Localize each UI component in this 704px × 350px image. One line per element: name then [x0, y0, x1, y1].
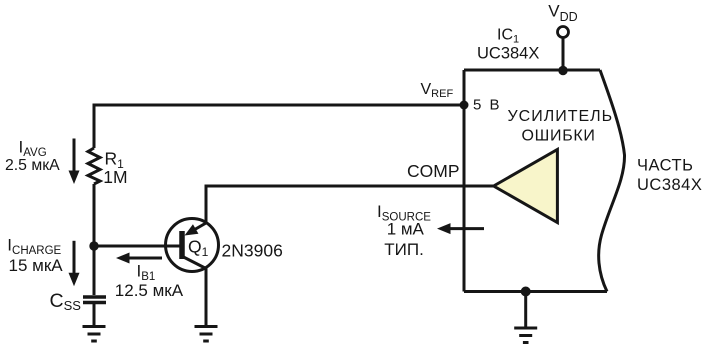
svg-text:Q1: Q1: [188, 237, 209, 260]
transistor Q1 emitter line: [189, 223, 206, 233]
IC box wavy right edge: [599, 70, 625, 292]
svg-text:UC384X: UC384X: [477, 45, 539, 63]
ground under CSS: [83, 327, 106, 342]
wire Q1 collector down to ground: [205, 269, 208, 327]
wire COMP from Q1 emitter up and right to error amp: [206, 186, 493, 223]
svg-text:15 мкА: 15 мкА: [9, 256, 64, 275]
capacitor CSS: [83, 297, 106, 303]
transistor Q1 base bar: [179, 231, 185, 259]
svg-text:2N3906: 2N3906: [222, 240, 283, 260]
svg-text:1 мА: 1 мА: [387, 220, 425, 239]
svg-text:1M: 1M: [103, 167, 127, 187]
svg-text:IC1: IC1: [497, 26, 519, 45]
IC box bottom edge: [464, 290, 607, 293]
transistor Q1 circle: [166, 219, 219, 272]
IC box top edge: [464, 69, 600, 72]
VDD terminal circle: [558, 27, 569, 38]
svg-text:CSS: CSS: [50, 290, 82, 313]
svg-text:ICHARGE: ICHARGE: [7, 236, 61, 258]
node VDD on box top: [558, 66, 567, 75]
ground under IC box: [514, 328, 537, 343]
svg-text:5 В: 5 В: [473, 97, 500, 114]
svg-text:ТИП.: ТИП.: [384, 240, 424, 259]
node junction R1/CSS/Q1 base: [89, 241, 98, 250]
wire R1 bottom to node junction and to capacitor: [93, 184, 96, 295]
svg-text:ОШИБКИ: ОШИБКИ: [522, 127, 596, 144]
svg-text:COMP: COMP: [407, 161, 460, 181]
node IC ground on box bottom: [521, 287, 531, 297]
arrow ISOURCE: [437, 223, 484, 234]
svg-text:UC384X: UC384X: [637, 176, 702, 194]
wire VDD terminal to box: [562, 38, 565, 71]
svg-text:УСИЛИТЕЛЬ: УСИЛИТЕЛЬ: [508, 108, 614, 125]
arrow IB1: [116, 253, 162, 264]
wire VREF horizontal from R1 top to IC box: [94, 105, 464, 148]
IC box left edge: [463, 70, 466, 292]
resistor R1: [88, 148, 100, 184]
arrow ICHARGE down: [69, 241, 80, 286]
arrow IAVG down: [69, 139, 80, 185]
svg-text:IAVG: IAVG: [19, 138, 47, 160]
wire CSS bottom to ground: [93, 304, 96, 327]
arrow Q1 emitter head: [185, 224, 199, 235]
wire IC ground pin down: [524, 292, 527, 329]
ground under Q1: [195, 327, 218, 342]
node VREF on box edge: [460, 101, 469, 110]
transistor Q1 collector line: [183, 257, 207, 269]
svg-text:ЧАСТЬ: ЧАСТЬ: [637, 157, 693, 175]
svg-text:2.5 мкА: 2.5 мкА: [5, 157, 60, 174]
svg-text:IB1: IB1: [137, 262, 156, 284]
wire base of Q1 from node: [94, 245, 180, 248]
svg-text:VDD: VDD: [548, 1, 577, 23]
svg-text:12.5 мкА: 12.5 мкА: [115, 281, 184, 300]
svg-text:VREF: VREF: [421, 81, 454, 100]
op-amp error amplifier triangle: [494, 150, 558, 223]
